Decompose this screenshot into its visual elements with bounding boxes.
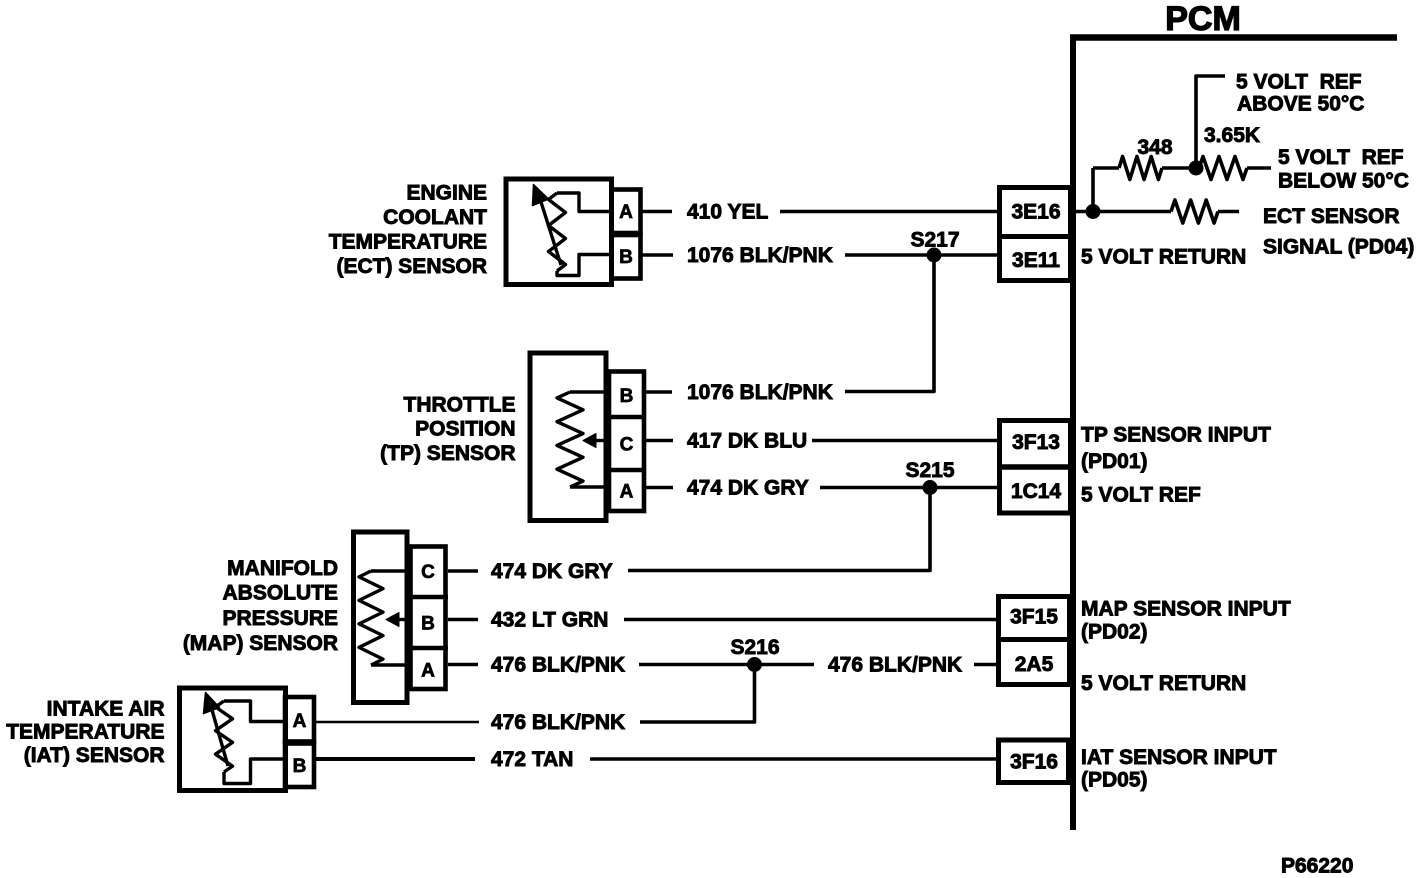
- PCM terminal 3F13: [997, 421, 1071, 514]
- wire 417 DK BLU to PCM 3F13: [812, 439, 998, 443]
- ECT thermistor element: [533, 185, 612, 276]
- svg-text:5 VOLT REF: 5 VOLT REF: [1081, 484, 1201, 507]
- svg-text:B: B: [421, 614, 435, 635]
- ECT pin B cavity: [612, 235, 641, 279]
- PCM top boundary line: [1070, 34, 1397, 41]
- ECT pin A cavity: [612, 190, 641, 234]
- svg-text:COOLANT: COOLANT: [383, 206, 487, 229]
- svg-text:5 VOLT REF: 5 VOLT REF: [1278, 146, 1404, 169]
- wire 476 BLK/PNK from IAT pin A: [314, 721, 479, 724]
- svg-text:(MAP) SENSOR: (MAP) SENSOR: [183, 632, 338, 655]
- TP sensor connector box: [530, 353, 606, 521]
- net label 5 VOLT RETURN (2A5): [1081, 672, 1246, 695]
- svg-text:TEMPERATURE: TEMPERATURE: [6, 721, 164, 744]
- svg-text:POSITION: POSITION: [415, 418, 515, 441]
- svg-text:410 YEL: 410 YEL: [687, 201, 769, 224]
- wire 476 BLK/PNK to PCM 2A5: [974, 663, 998, 667]
- svg-text:B: B: [620, 386, 634, 407]
- svg-text:474 DK GRY: 474 DK GRY: [491, 560, 613, 583]
- wire 1076 BLK/PNK stub from TP pin B: [646, 390, 672, 394]
- svg-text:PRESSURE: PRESSURE: [222, 607, 338, 630]
- svg-text:ABOVE 50°C: ABOVE 50°C: [1237, 93, 1364, 116]
- svg-text:ABSOLUTE: ABSOLUTE: [223, 582, 339, 605]
- svg-text:(PD01): (PD01): [1081, 450, 1148, 473]
- svg-text:MAP SENSOR INPUT: MAP SENSOR INPUT: [1081, 598, 1291, 621]
- wire from S215 down to MAP 474 DK GRY: [628, 488, 930, 571]
- wire 474 DK GRY stub from TP pin A: [646, 486, 673, 490]
- IAT sensor label: [6, 698, 164, 768]
- resistor value label 3.65K: [1204, 124, 1260, 147]
- splice S217 label: [910, 229, 959, 252]
- IAT sensor connector box: [180, 688, 286, 791]
- wire 410 YEL stub from ECT pin A: [641, 210, 672, 214]
- PCM left boundary line: [1070, 35, 1076, 831]
- wire label 476 BLK/PNK (to 2A5): [828, 654, 962, 677]
- net label IAT SENSOR INPUT (PD05): [1081, 746, 1277, 792]
- resistor value label 348: [1137, 136, 1172, 159]
- svg-text:3F16: 3F16: [1010, 751, 1058, 774]
- resistor ECT sensor signal: [1171, 200, 1239, 223]
- MAP pin cavities C B A: [408, 547, 448, 690]
- wire 417 DK BLU stub from TP pin C: [646, 439, 673, 443]
- svg-text:MANIFOLD: MANIFOLD: [227, 557, 338, 580]
- svg-text:A: A: [619, 202, 633, 223]
- wire 474 DK GRY to PCM 1C14: [820, 486, 998, 490]
- wire 410 YEL to PCM 3E16: [780, 210, 998, 214]
- wire 472 TAN stub from IAT pin B: [314, 757, 475, 761]
- MAP potentiometer element: [359, 571, 408, 665]
- svg-text:417 DK BLU: 417 DK BLU: [687, 430, 807, 453]
- splice S217 junction dot: [927, 248, 941, 262]
- net label MAP SENSOR INPUT (PD02): [1081, 598, 1291, 644]
- svg-text:(PD02): (PD02): [1081, 621, 1148, 644]
- svg-text:BELOW 50°C: BELOW 50°C: [1278, 170, 1409, 193]
- MAP sensor connector box: [354, 532, 408, 703]
- wire stub to 5 VOLT REF ABOVE: [1196, 76, 1225, 168]
- svg-text:476 BLK/PNK: 476 BLK/PNK: [491, 711, 625, 734]
- svg-text:P66220: P66220: [1281, 855, 1353, 878]
- wire label 1076 BLK/PNK: [687, 244, 833, 267]
- svg-text:INTAKE AIR: INTAKE AIR: [47, 698, 165, 721]
- net label 5 VOLT RETURN (3E11): [1081, 246, 1246, 269]
- svg-text:2A5: 2A5: [1015, 653, 1054, 676]
- wire label 476 BLK/PNK (IAT): [491, 711, 625, 734]
- svg-text:(ECT) SENSOR: (ECT) SENSOR: [336, 255, 487, 278]
- wire 476 BLK/PNK through S216: [639, 663, 814, 667]
- svg-text:S216: S216: [730, 636, 779, 659]
- svg-text:348: 348: [1137, 136, 1172, 159]
- svg-text:5 VOLT RETURN: 5 VOLT RETURN: [1081, 672, 1246, 695]
- svg-text:(IAT) SENSOR: (IAT) SENSOR: [24, 744, 165, 767]
- svg-text:ENGINE: ENGINE: [406, 182, 487, 205]
- wire label 410 YEL: [687, 201, 769, 224]
- wire label 472 TAN: [491, 748, 573, 771]
- resistor 348: [1093, 157, 1199, 180]
- net label ECT SENSOR SIGNAL (PD04): [1263, 205, 1414, 259]
- splice S216 label: [730, 636, 779, 659]
- wire label 474 DK GRY (MAP): [491, 560, 613, 583]
- svg-text:1076 BLK/PNK: 1076 BLK/PNK: [687, 244, 833, 267]
- node junction dot on 3E16 wire: [1086, 205, 1100, 219]
- net label 5 VOLT REF ABOVE 50C: [1236, 71, 1364, 116]
- svg-text:1076 BLK/PNK: 1076 BLK/PNK: [687, 381, 833, 404]
- svg-text:1C14: 1C14: [1011, 480, 1062, 503]
- wire 1076 BLK/PNK to PCM 3E11: [845, 253, 998, 257]
- svg-text:S215: S215: [905, 459, 954, 482]
- wire 474 DK GRY stub from MAP pin C: [448, 569, 478, 573]
- svg-text:476 BLK/PNK: 476 BLK/PNK: [491, 654, 625, 677]
- svg-text:3.65K: 3.65K: [1204, 124, 1260, 147]
- wire from S217 down to TP sensor 1076 BLK/PNK: [845, 255, 934, 392]
- svg-text:THROTTLE: THROTTLE: [404, 394, 516, 417]
- wire 432 LT GRN stub from MAP pin B: [448, 618, 478, 622]
- ECT sensor label: [329, 182, 487, 279]
- svg-text:3F15: 3F15: [1010, 606, 1058, 629]
- svg-text:A: A: [421, 661, 435, 682]
- wire label 474 DK GRY (TP): [687, 477, 809, 500]
- node junction dot at 3.65K left: [1189, 161, 1203, 175]
- svg-text:476 BLK/PNK: 476 BLK/PNK: [828, 654, 962, 677]
- PCM terminal 3F16: [999, 740, 1069, 783]
- wire label 432 LT GRN: [491, 609, 608, 632]
- svg-text:A: A: [293, 711, 307, 732]
- TP potentiometer element: [557, 392, 607, 487]
- PCM terminal 1C14: [1011, 480, 1062, 503]
- wire label 1076 BLK/PNK (TP): [687, 381, 833, 404]
- IAT pin B cavity: [285, 744, 314, 788]
- svg-text:B: B: [619, 247, 633, 268]
- TP sensor label: [380, 394, 515, 466]
- svg-text:TP SENSOR INPUT: TP SENSOR INPUT: [1081, 424, 1271, 447]
- wire 476 BLK/PNK stub from MAP pin A: [448, 663, 478, 667]
- svg-text:(PD05): (PD05): [1081, 769, 1148, 792]
- svg-text:5 VOLT REF: 5 VOLT REF: [1236, 71, 1362, 94]
- svg-text:472 TAN: 472 TAN: [491, 748, 573, 771]
- PCM terminal 2A5: [1015, 653, 1054, 676]
- resistor 3.65K: [1199, 157, 1271, 180]
- net label 5 VOLT REF BELOW 50C: [1278, 146, 1409, 193]
- wire label 476 BLK/PNK (MAP): [491, 654, 625, 677]
- svg-text:ECT SENSOR: ECT SENSOR: [1263, 205, 1400, 228]
- svg-text:C: C: [421, 562, 435, 583]
- svg-text:SIGNAL (PD04): SIGNAL (PD04): [1263, 236, 1414, 259]
- svg-text:PCM: PCM: [1165, 0, 1241, 38]
- splice S215 label: [905, 459, 954, 482]
- TP pin cavities B C A: [607, 372, 646, 512]
- IAT pin A cavity: [285, 697, 314, 742]
- PCM terminal 3F15: [996, 597, 1070, 685]
- svg-text:C: C: [620, 435, 634, 456]
- net label TP SENSOR INPUT (PD01): [1081, 424, 1271, 474]
- svg-text:TEMPERATURE: TEMPERATURE: [329, 231, 487, 254]
- svg-text:3E11: 3E11: [1012, 249, 1060, 272]
- net label 5 VOLT REF (1C14): [1081, 484, 1201, 507]
- splice S216 junction dot: [748, 658, 762, 672]
- svg-text:A: A: [620, 482, 634, 503]
- MAP sensor label: [183, 557, 338, 655]
- svg-text:B: B: [293, 756, 307, 777]
- svg-text:IAT SENSOR INPUT: IAT SENSOR INPUT: [1081, 746, 1277, 769]
- wire 1076 BLK/PNK stub from ECT pin B: [641, 253, 673, 257]
- wire from 3E16 into PCM: [1073, 210, 1171, 214]
- vertical wire from 348 to 3E16 node: [1091, 168, 1095, 212]
- wire 472 TAN to PCM 3F16: [590, 757, 998, 761]
- PCM title: [1165, 0, 1241, 38]
- figure number P66220: [1281, 855, 1353, 878]
- svg-text:5 VOLT RETURN: 5 VOLT RETURN: [1081, 246, 1246, 269]
- wire 432 LT GRN to PCM 3F15: [624, 618, 998, 622]
- svg-text:432 LT GRN: 432 LT GRN: [491, 609, 608, 632]
- PCM terminal 3E16: [997, 188, 1071, 281]
- PCM terminal 3E11: [1012, 249, 1060, 272]
- wire label 417 DK BLU: [687, 430, 807, 453]
- IAT thermistor element: [204, 693, 285, 784]
- svg-text:3F13: 3F13: [1012, 431, 1060, 454]
- svg-text:3E16: 3E16: [1011, 201, 1060, 224]
- svg-text:474 DK GRY: 474 DK GRY: [687, 477, 809, 500]
- splice S215 junction dot: [923, 481, 937, 495]
- svg-text:(TP) SENSOR: (TP) SENSOR: [380, 442, 515, 465]
- wire from S216 down to IAT 476 BLK/PNK: [640, 665, 755, 723]
- ECT sensor connector box: [506, 179, 612, 285]
